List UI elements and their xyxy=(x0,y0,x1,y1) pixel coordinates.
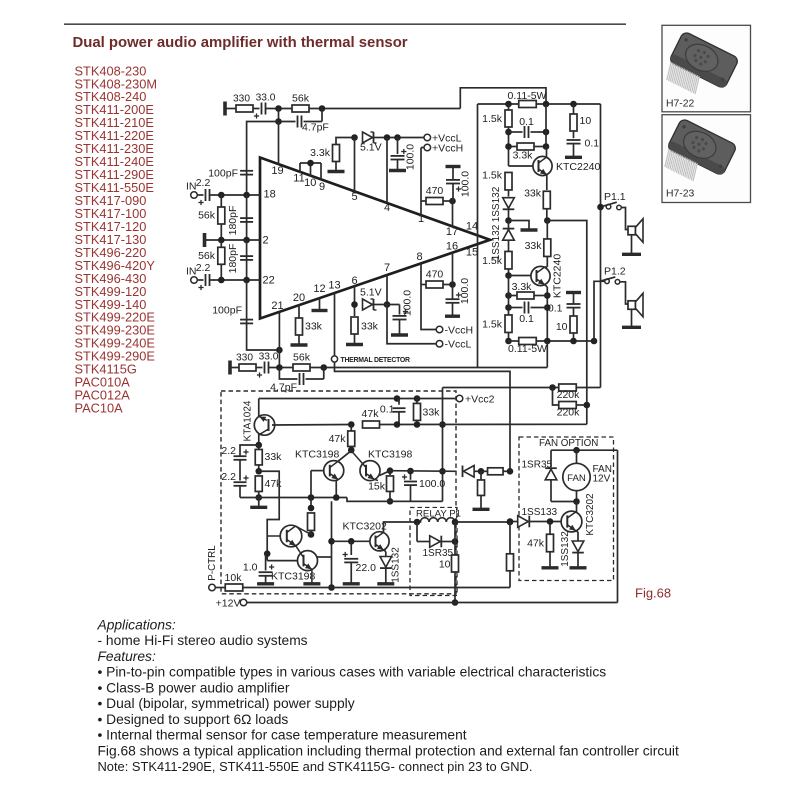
svg-text:5.1V: 5.1V xyxy=(360,142,382,154)
svg-text:-VccL: -VccL xyxy=(445,339,472,351)
svg-text:Note: STK411-290E, STK411-550E: Note: STK411-290E, STK411-550E and STK41… xyxy=(98,759,533,774)
H7-23 package photo xyxy=(659,118,737,192)
node xyxy=(507,518,514,525)
diode 1SS133 xyxy=(510,521,518,523)
svg-text:1.5k: 1.5k xyxy=(482,319,503,331)
wire 100pF branch xyxy=(247,122,279,196)
node xyxy=(505,304,512,311)
svg-text:2.2: 2.2 xyxy=(221,471,236,483)
wire Q7 base xyxy=(266,554,268,561)
resistor 1.5k (R3 ch2) xyxy=(505,251,512,269)
svg-text:6: 6 xyxy=(351,275,357,287)
node xyxy=(328,538,335,545)
resistor 33k (Vcc2) xyxy=(416,399,418,404)
svg-text:1SS132: 1SS132 xyxy=(491,186,502,222)
capacitor 180pF (ch2) xyxy=(246,240,248,280)
node xyxy=(544,217,551,224)
svg-text:1SS133: 1SS133 xyxy=(522,507,558,518)
svg-text:47k: 47k xyxy=(329,433,347,445)
svg-text:33k: 33k xyxy=(361,321,379,333)
wire ch2 output tap xyxy=(547,221,587,425)
svg-text:PAC10A: PAC10A xyxy=(75,401,124,416)
resistor 10 (relay) xyxy=(454,542,456,556)
svg-text:18: 18 xyxy=(264,189,276,201)
svg-text:4: 4 xyxy=(384,202,390,214)
resistor 33k (Q1 emitter) xyxy=(543,191,550,209)
header rule xyxy=(64,23,626,25)
node xyxy=(544,292,551,299)
ground (speaker2) xyxy=(622,326,641,329)
svg-text:0.11-5W: 0.11-5W xyxy=(508,343,547,355)
node xyxy=(449,198,456,205)
wire Q7 collector xyxy=(318,556,332,558)
node xyxy=(543,129,550,136)
svg-text:470: 470 xyxy=(426,185,444,197)
op-amp triangle (STK hybrid IC) xyxy=(260,158,490,319)
wire Q1 base xyxy=(509,165,534,167)
svg-text:19: 19 xyxy=(271,165,283,177)
svg-text:3.3k: 3.3k xyxy=(512,281,533,293)
svg-text:• Designed to support 6Ω loads: • Designed to support 6Ω loads xyxy=(98,712,289,727)
diode 1SS132 (Q8) xyxy=(380,557,392,568)
resistor 10 (ch1 zobel) xyxy=(573,104,575,114)
resistor 1.5k (R1 ch1) xyxy=(508,104,510,110)
capacitor 100.0 (pin16) xyxy=(452,285,454,300)
svg-text:100.0: 100.0 xyxy=(459,171,471,197)
svg-text:FAN OPTION: FAN OPTION xyxy=(539,438,598,449)
ground (3.3k) xyxy=(335,162,337,171)
wire fan top xyxy=(551,449,618,451)
node xyxy=(478,468,485,475)
transistor KTC3198 (Q6) xyxy=(280,525,302,547)
resistor 33k (Q2 collector) xyxy=(546,221,548,240)
label RELAY P1 xyxy=(414,508,456,518)
svg-text:H7-23: H7-23 xyxy=(666,189,695,200)
svg-text:0.1: 0.1 xyxy=(519,313,534,325)
svg-text:180pF: 180pF xyxy=(227,244,239,274)
node xyxy=(544,338,551,345)
node xyxy=(452,599,459,606)
wire P1.1 drop xyxy=(600,104,602,388)
node xyxy=(414,421,421,428)
resistor 33k (pin20) xyxy=(298,305,300,319)
svg-text:Applications:: Applications: xyxy=(97,618,176,633)
wire xyxy=(454,522,456,542)
svg-text:1SS132: 1SS132 xyxy=(391,547,402,583)
wire Q8 base row xyxy=(332,540,370,542)
svg-text:16: 16 xyxy=(446,240,458,252)
svg-text:0.1: 0.1 xyxy=(585,138,600,150)
capacitor 2.2 (a) xyxy=(234,455,247,457)
node xyxy=(449,281,456,288)
resistor 33k (pin6) xyxy=(351,317,358,334)
ground bar (pin2) xyxy=(203,233,207,247)
H7-23 photo box xyxy=(662,115,751,203)
svg-text:+Vcc2: +Vcc2 xyxy=(465,394,495,406)
svg-text:100pF: 100pF xyxy=(208,168,238,180)
transistor KTC2240 (Q1) xyxy=(533,156,552,175)
wire right rail ch1 xyxy=(545,104,547,147)
svg-text:KTC3198: KTC3198 xyxy=(368,449,413,461)
wire xyxy=(631,235,633,253)
ground (100.0 -VccL) xyxy=(391,333,408,336)
node xyxy=(243,192,250,199)
svg-text:1SR35: 1SR35 xyxy=(522,460,553,471)
svg-text:KTC2240: KTC2240 xyxy=(556,161,601,173)
wire Q5 out xyxy=(380,471,391,476)
node xyxy=(319,105,326,112)
ground (47k fan) xyxy=(542,566,559,569)
wire pin19 stub xyxy=(278,122,280,165)
svg-text:220k: 220k xyxy=(557,407,581,419)
H7-22 photo box xyxy=(662,25,751,112)
wire Q2 emitter xyxy=(545,285,548,287)
node xyxy=(351,134,358,141)
svg-text:• Internal thermal sensor for: • Internal thermal sensor for case tempe… xyxy=(98,728,467,743)
node xyxy=(384,301,391,308)
node xyxy=(547,518,554,525)
svg-text:100pF: 100pF xyxy=(212,305,242,317)
svg-text:1.5k: 1.5k xyxy=(482,255,503,267)
node xyxy=(218,277,225,284)
resistor 56k (ch1 input) xyxy=(220,195,222,207)
resistor 470 (pin1-17) xyxy=(426,198,443,205)
node xyxy=(543,101,550,108)
wire 220k row1 xyxy=(443,387,560,389)
node xyxy=(387,498,394,505)
wire x442 drop xyxy=(442,388,444,502)
svg-text:21: 21 xyxy=(271,300,283,312)
transistor KTC3202 (Q9) xyxy=(561,511,582,532)
node xyxy=(505,143,512,150)
wire +12V rail xyxy=(247,602,618,604)
svg-text:H7-22: H7-22 xyxy=(666,98,695,109)
ground (22.0) xyxy=(343,582,360,585)
capacitor 2.2 (ch2 input) xyxy=(197,279,203,281)
svg-text:100.0: 100.0 xyxy=(419,478,445,490)
svg-text:33k: 33k xyxy=(265,451,283,463)
capacitor 2.2 (ch1 input) xyxy=(197,194,203,196)
resistor 47k (fan) xyxy=(549,522,551,535)
resistor 330 (ch1 feedback) xyxy=(236,105,253,112)
dashed box (relay) xyxy=(410,508,457,596)
resistor 220k (ch1 sense) xyxy=(559,384,577,391)
resistor 33k (Q3 collector) xyxy=(258,445,260,450)
wire xyxy=(210,194,261,196)
node xyxy=(394,421,401,428)
node xyxy=(573,498,580,505)
node xyxy=(333,494,340,501)
wire output stage top xyxy=(478,103,601,105)
svg-text:14: 14 xyxy=(466,221,478,233)
diode 1SS132 (bias ch2) xyxy=(508,221,510,229)
svg-text:13: 13 xyxy=(328,280,340,292)
svg-text:33k: 33k xyxy=(524,188,542,200)
wire Q4 emitter xyxy=(336,480,338,481)
wire P1.2 feed xyxy=(594,281,604,341)
svg-text:KTC3198: KTC3198 xyxy=(271,571,316,583)
svg-text:17: 17 xyxy=(446,226,458,238)
diode 1SS132 (fan) xyxy=(576,531,578,532)
node xyxy=(276,347,283,354)
ground (bias center) xyxy=(509,221,530,230)
node xyxy=(452,538,459,545)
resistor 1.5k (R4 ch2) xyxy=(505,315,512,333)
H7-22 package photo xyxy=(661,31,739,105)
node xyxy=(505,272,512,279)
resistor 47k (div) xyxy=(255,476,262,492)
capacitor 0.1 (ch1 zobel) xyxy=(567,139,581,141)
node xyxy=(328,584,335,591)
resistor 3.3k (ch1) xyxy=(509,146,518,148)
capacitor 100pF (ch1) xyxy=(240,170,253,172)
node xyxy=(505,338,512,345)
capacitor 4.7pF (ch2) xyxy=(279,368,297,380)
node xyxy=(591,338,598,345)
node xyxy=(348,421,355,428)
node xyxy=(387,467,394,474)
ground (control rail) xyxy=(258,498,260,507)
diode 1SR35 (relay) xyxy=(417,541,430,543)
svg-text:1SS132: 1SS132 xyxy=(560,531,571,567)
wire xyxy=(551,501,577,503)
ground bar (330 ch1) xyxy=(223,102,227,116)
wire pin22 xyxy=(210,279,261,281)
zener 5.1V (ch1) xyxy=(363,132,373,143)
node xyxy=(570,338,577,345)
capacitor 100.0 (-VccL) xyxy=(399,305,401,315)
svg-text:2.2: 2.2 xyxy=(196,177,211,189)
transistor KTC3198 (Q5) xyxy=(360,461,380,481)
wire pin6 stub xyxy=(354,286,356,316)
svg-text:33k: 33k xyxy=(305,321,323,333)
resistor 56k (ch2 input) xyxy=(218,247,225,264)
resistor 47k (Q3 base) xyxy=(363,421,380,428)
svg-text:15: 15 xyxy=(466,246,478,258)
input terminal IN ch1 xyxy=(191,192,198,199)
wire xyxy=(622,208,629,230)
terminal +VccL xyxy=(424,134,431,141)
capacitor 100pF (ch2) xyxy=(247,280,280,350)
transistor KTC3202 (Q8) xyxy=(370,532,389,551)
wire pin17 stub xyxy=(452,201,454,228)
svg-text:56k: 56k xyxy=(198,250,216,262)
svg-text:56k: 56k xyxy=(292,93,310,105)
ground (pin12) xyxy=(319,298,321,310)
svg-text:47k: 47k xyxy=(362,408,380,420)
capacitor 0.1 (Vcc2) xyxy=(398,399,400,405)
node xyxy=(255,494,262,501)
svg-text:100.0: 100.0 xyxy=(404,144,416,170)
label FAN OPTION xyxy=(534,438,596,448)
wire xyxy=(620,282,628,304)
resistor 47k (Q3 bias) xyxy=(350,425,352,432)
capacitor 1.0 xyxy=(265,554,267,571)
svg-text:180pF: 180pF xyxy=(227,206,239,236)
resistor 220k (ch2 sense) xyxy=(559,402,577,409)
svg-text:2.2: 2.2 xyxy=(196,262,211,274)
svg-text:Fig.68: Fig.68 xyxy=(635,585,671,600)
wire to ch1 output xyxy=(460,88,546,109)
terminal +VccH xyxy=(424,144,431,151)
resistor (prot shunt) xyxy=(480,471,482,480)
svg-text:10k: 10k xyxy=(225,572,243,584)
svg-text:5.1V: 5.1V xyxy=(360,287,382,299)
speaker (ch1) xyxy=(628,226,636,235)
svg-text:1.5k: 1.5k xyxy=(482,170,503,182)
wire +Vcc2 row xyxy=(259,398,456,400)
wire xyxy=(269,367,293,369)
svg-text:KTC3198: KTC3198 xyxy=(295,449,340,461)
wire Q8 emitter xyxy=(384,550,386,551)
node xyxy=(505,129,512,136)
wire mid rail xyxy=(347,500,443,502)
wire -VccH xyxy=(421,285,436,330)
node xyxy=(264,550,271,557)
wire Q9 collector xyxy=(576,502,578,513)
ground (fan diode) xyxy=(570,566,587,569)
svg-text:FAN: FAN xyxy=(567,473,586,484)
node xyxy=(320,364,327,371)
diode (protection) xyxy=(464,466,475,478)
svg-text:12V: 12V xyxy=(593,473,611,484)
resistor 3.3k (ch2) xyxy=(509,295,518,297)
wire Q2 collector xyxy=(545,266,548,268)
wire pin13 stub xyxy=(334,293,336,356)
dashed box (control circuit) xyxy=(221,391,456,594)
terminal P-CTRL xyxy=(209,584,216,591)
node xyxy=(549,384,556,391)
diode 1SS132 (bias ch1) xyxy=(503,198,515,209)
node xyxy=(414,519,421,526)
svg-text:0.1: 0.1 xyxy=(380,404,395,416)
wire xyxy=(253,108,260,110)
svg-text:• Dual (bipolar, symmetrical): • Dual (bipolar, symmetrical) power supp… xyxy=(98,696,355,711)
transistor KTC3198 (Q7) xyxy=(298,551,318,571)
node xyxy=(507,468,514,475)
wire diode row xyxy=(390,470,457,473)
svg-text:33k: 33k xyxy=(525,240,543,252)
node xyxy=(218,192,225,199)
resistor 0.11-5W (ch2) xyxy=(509,340,520,342)
wire Q1 collector xyxy=(546,147,548,158)
wire xyxy=(416,522,418,542)
svg-text:20: 20 xyxy=(293,292,305,304)
svg-text:33.0: 33.0 xyxy=(259,352,279,363)
wire Q2 base xyxy=(509,275,532,277)
svg-text:- home Hi-Fi stereo audio syst: - home Hi-Fi stereo audio systems xyxy=(98,633,308,648)
capacitor 33.0 (ch1 feedback) xyxy=(261,103,263,115)
wire Q1 emitter xyxy=(546,175,548,190)
input terminal IN ch2 xyxy=(191,277,198,284)
svg-text:0.1: 0.1 xyxy=(548,303,563,315)
svg-text:1SR35: 1SR35 xyxy=(423,548,454,559)
wire pin1 stub xyxy=(420,201,422,216)
wire xyxy=(225,108,236,110)
transistor KTC2240 (Q2) xyxy=(531,266,550,285)
svg-text:1.5k: 1.5k xyxy=(482,113,503,125)
wire left rail xyxy=(477,104,479,368)
ground (ch1 zobel) xyxy=(565,156,582,159)
resistor 470 (pin8-16) xyxy=(426,281,443,288)
resistor (prot series) xyxy=(481,470,488,472)
svg-text:KTC3202: KTC3202 xyxy=(343,521,388,533)
node xyxy=(348,447,355,454)
svg-text:• Class-B power audio amplifie: • Class-B power audio amplifier xyxy=(98,681,290,696)
ground (100.0 VccL) xyxy=(389,169,406,172)
svg-text:4.7pF: 4.7pF xyxy=(302,122,329,134)
wire Q3 base xyxy=(272,424,351,427)
resistor 56k (ch1 feedback) xyxy=(292,105,309,112)
node xyxy=(255,468,262,475)
wire to ch2 output xyxy=(310,367,547,369)
svg-text:3.3k: 3.3k xyxy=(310,147,331,159)
node xyxy=(307,160,314,167)
svg-text:100.0: 100.0 xyxy=(459,278,471,304)
svg-text:56k: 56k xyxy=(293,352,311,364)
svg-text:22: 22 xyxy=(263,275,275,287)
terminal -VccL xyxy=(436,340,443,347)
node xyxy=(573,447,580,454)
node xyxy=(505,217,512,224)
node xyxy=(439,468,446,475)
svg-text:8: 8 xyxy=(416,251,422,263)
capacitor 100.0 (control) xyxy=(410,471,412,480)
dashed box (fan option) xyxy=(519,437,614,581)
svg-text:+12V: +12V xyxy=(216,598,241,610)
svg-text:KTC2240: KTC2240 xyxy=(551,254,563,299)
capacitor 0.1 (ch2 zobel) xyxy=(566,291,581,294)
wire xyxy=(381,137,424,139)
wire xyxy=(381,304,400,306)
wire Q8 collector xyxy=(384,522,418,532)
svg-text:+VccH: +VccH xyxy=(432,143,463,155)
capacitor 33.0 (ch2 feedback) xyxy=(264,362,266,374)
wire xyxy=(266,108,293,110)
wire x331 rail xyxy=(331,501,333,587)
svg-text:100.0: 100.0 xyxy=(401,290,413,316)
node xyxy=(570,101,577,108)
svg-text:7: 7 xyxy=(384,262,390,274)
ground (speaker1) xyxy=(622,253,641,256)
wire xyxy=(508,276,510,316)
svg-text:Fig.68 shows a typical applica: Fig.68 shows a typical application inclu… xyxy=(98,744,679,759)
capacitor 0.1 (ch2 lower) xyxy=(509,307,523,309)
resistor (Q6 collector) xyxy=(310,498,312,509)
wire ch2 bottom xyxy=(546,341,548,368)
ground (Q7) xyxy=(303,582,320,585)
svg-text:P1.1: P1.1 xyxy=(604,191,626,203)
svg-text:47k: 47k xyxy=(527,538,545,550)
wire pin2 xyxy=(205,239,261,241)
pins 9-10-11 bracket xyxy=(299,163,301,172)
wire xyxy=(309,108,460,110)
svg-text:2.2: 2.2 xyxy=(221,445,236,457)
svg-text:10: 10 xyxy=(580,115,592,127)
svg-text:P1.2: P1.2 xyxy=(604,266,626,278)
svg-text:5: 5 xyxy=(351,191,357,203)
svg-text:10: 10 xyxy=(304,177,316,189)
svg-text:Features:: Features: xyxy=(98,649,156,664)
resistor 330 (ch2 feedback) xyxy=(239,364,256,371)
node xyxy=(308,494,315,501)
svg-text:KTA1024: KTA1024 xyxy=(243,400,254,441)
resistor 15k (Q5) xyxy=(387,476,394,492)
wire -VccL xyxy=(387,305,436,344)
wire 2.2 branch xyxy=(240,445,259,456)
wire thermal to P-rail xyxy=(335,362,511,472)
svg-text:10: 10 xyxy=(439,559,451,571)
